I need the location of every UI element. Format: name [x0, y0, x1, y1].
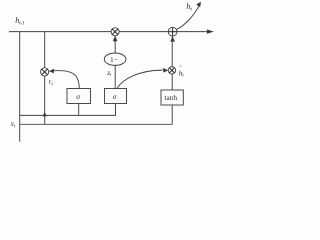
arrowhead into right multiplier pointing right	[163, 68, 168, 73]
wire z_t curve from sigma2 to right multiplier	[117, 70, 163, 88]
svg-text:tanh: tanh	[164, 93, 177, 102]
box sigma2	[105, 89, 127, 104]
svg-text:ht: ht	[186, 2, 192, 13]
arrowhead into top multiplier from below	[113, 36, 118, 41]
arrowhead up at bus1 junction	[43, 112, 47, 116]
arrowhead right end of top line	[207, 29, 214, 33]
glyph x in top multiplier	[113, 29, 118, 34]
wire h-tilde vertical (tanh to right multiplier to adder)	[171, 37, 173, 90]
op multiplier left r_t	[41, 68, 49, 76]
glyph x in right multiplier	[170, 68, 175, 73]
box tanh	[161, 90, 183, 105]
wire h_t output curve	[177, 5, 200, 30]
op multiplier right (z * h-tilde)	[168, 67, 175, 74]
svg-text:ht-1: ht-1	[15, 16, 25, 27]
wire bus2 x_t line	[20, 105, 173, 124]
op multiplier top (1-z)	[111, 28, 119, 36]
wire vertical B (through reset gate multiplier)	[44, 32, 46, 125]
svg-text:1−: 1−	[110, 55, 118, 64]
svg-text:rt: rt	[49, 78, 54, 87]
wire r_t curve from sigma1 to left multiplier	[51, 71, 79, 89]
op adder	[168, 27, 177, 36]
arrowhead into left multiplier pointing left	[49, 69, 54, 74]
wire top h-line	[9, 31, 207, 33]
svg-text:σ: σ	[76, 92, 80, 101]
wire sigma1 bottom stub	[78, 104, 80, 116]
wire vertical A (h tap at x=19.7)	[19, 32, 21, 142]
box sigma1	[67, 89, 91, 104]
svg-text:xt: xt	[10, 120, 16, 129]
glyph plus in adder	[169, 28, 177, 36]
arrowhead into adder from below	[170, 36, 175, 41]
op ellipse 1-minus	[104, 53, 126, 65]
svg-text:σ: σ	[113, 92, 117, 101]
wire bus1 horizontal	[20, 104, 116, 116]
svg-text:zt: zt	[106, 69, 112, 78]
wire z vertical (sigma2 to 1- to top multiplier)	[114, 36, 116, 89]
glyph x in left multiplier	[42, 69, 47, 74]
arrowhead h_t curve tip	[196, 2, 201, 7]
